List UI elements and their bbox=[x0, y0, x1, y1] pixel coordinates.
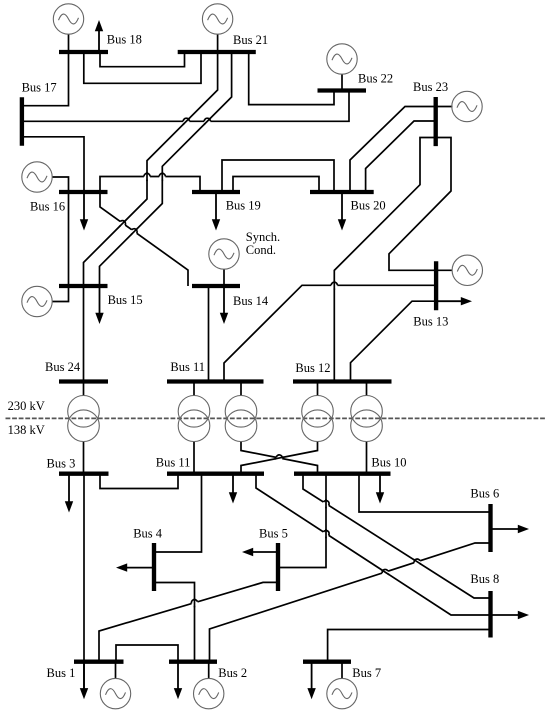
svg-text:Bus 21: Bus 21 bbox=[233, 33, 268, 47]
svg-text:Bus 20: Bus 20 bbox=[351, 199, 386, 213]
svg-text:Bus 14: Bus 14 bbox=[233, 294, 269, 308]
svg-text:Bus 18: Bus 18 bbox=[107, 33, 142, 47]
svg-text:Bus 19: Bus 19 bbox=[226, 199, 261, 213]
svg-text:Bus 17: Bus 17 bbox=[22, 81, 57, 95]
svg-text:Bus 3: Bus 3 bbox=[47, 457, 76, 471]
svg-text:Bus 8: Bus 8 bbox=[470, 572, 499, 586]
svg-text:Bus 11: Bus 11 bbox=[170, 360, 205, 374]
svg-text:Bus 24: Bus 24 bbox=[45, 360, 81, 374]
svg-text:Bus 1: Bus 1 bbox=[47, 666, 76, 680]
svg-text:Bus 5: Bus 5 bbox=[259, 527, 288, 541]
svg-text:Bus 23: Bus 23 bbox=[413, 80, 448, 94]
svg-text:Bus 13: Bus 13 bbox=[413, 315, 448, 329]
svg-text:Bus 22: Bus 22 bbox=[358, 72, 393, 86]
svg-text:Bus 4: Bus 4 bbox=[133, 527, 163, 541]
svg-text:Bus 11: Bus 11 bbox=[156, 456, 191, 470]
svg-text:Bus 7: Bus 7 bbox=[352, 666, 381, 680]
svg-text:Bus 10: Bus 10 bbox=[371, 456, 406, 470]
svg-text:Bus 16: Bus 16 bbox=[30, 200, 65, 214]
svg-text:Bus 6: Bus 6 bbox=[470, 487, 499, 501]
svg-text:138 kV: 138 kV bbox=[8, 423, 45, 437]
svg-text:Bus 2: Bus 2 bbox=[218, 666, 247, 680]
svg-text:Bus 12: Bus 12 bbox=[295, 361, 330, 375]
svg-text:Bus 15: Bus 15 bbox=[108, 293, 143, 307]
svg-text:230 kV: 230 kV bbox=[8, 399, 45, 413]
svg-text:Cond.: Cond. bbox=[246, 243, 276, 257]
